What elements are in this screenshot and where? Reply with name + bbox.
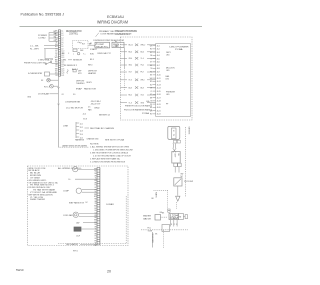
fresh food light switch — [45, 62, 58, 65]
svg-text:15uF: 15uF — [76, 236, 80, 238]
svg-text:RD-5: RD-5 — [129, 95, 133, 97]
svg-text:RB: RB — [94, 199, 96, 201]
svg-text:TN: TN — [150, 101, 152, 103]
svg-text:PK-7: PK-7 — [141, 72, 145, 74]
run capacitor box — [112, 42, 124, 48]
svg-text:RD: RD — [94, 171, 96, 173]
svg-text:J-4: J-4 — [61, 37, 63, 39]
svg-text:THERMO: THERMO — [76, 83, 85, 85]
svg-text:DOOR AJAR: DOOR AJAR — [38, 93, 50, 96]
svg-text:GN-2: GN-2 — [129, 65, 133, 67]
svg-text:WB: WB — [55, 68, 58, 70]
door harness inner wire — [123, 68, 125, 90]
relay coil — [78, 42, 93, 45]
svg-text:J-9: J-9 — [61, 48, 63, 50]
svg-text:T =: T = — [83, 54, 85, 56]
svg-text:J2-1: J2-1 — [80, 123, 83, 125]
J4 pin ladder — [150, 45, 161, 115]
svg-text:YL: YL — [150, 91, 152, 93]
door wire rows — [120, 44, 155, 105]
ice maker side plug — [185, 215, 187, 219]
wire corner to notes — [59, 146, 89, 148]
svg-text:YL: YL — [95, 229, 97, 231]
svg-text:4. DO NOT EXCEED RATED LOAD OF: 4. DO NOT EXCEED RATED LOAD OF OUTLET — [93, 155, 132, 158]
svg-text:YL: YL — [150, 58, 152, 60]
svg-text:TN: TN — [95, 185, 97, 187]
ice maker terminal box — [169, 214, 179, 221]
LED power PCBA box — [156, 44, 191, 117]
svg-text:J-19: J-19 — [61, 71, 64, 73]
svg-text:J4-5: J4-5 — [157, 58, 160, 60]
svg-text:HTR 1: HTR 1 — [73, 251, 78, 253]
svg-text:J-12: J-12 — [61, 55, 64, 57]
svg-text:J4-4: J4-4 — [157, 55, 160, 57]
svg-text:GY-5: GY-5 — [141, 95, 145, 97]
svg-text:WH: WH — [150, 110, 153, 112]
water line dashed wire — [154, 190, 168, 213]
svg-text:J4-22: J4-22 — [157, 114, 161, 116]
svg-text:HEATER: HEATER — [88, 72, 97, 75]
svg-text:GB: GB — [94, 201, 96, 203]
harness dashed wire — [185, 127, 187, 196]
display board connector — [172, 152, 180, 164]
svg-text:OR: OR — [94, 175, 96, 177]
svg-text:5W10: 5W10 — [16, 268, 24, 272]
svg-text:BK: BK — [150, 75, 152, 77]
defrost thermostat label — [76, 80, 92, 84]
AC line wires — [44, 45, 58, 47]
freezer thermostat — [174, 178, 194, 186]
svg-text:SENSOR: SENSOR — [73, 59, 83, 61]
svg-text:ECBM1AU: ECBM1AU — [107, 14, 124, 19]
svg-text:20: 20 — [107, 270, 111, 274]
svg-text:GY: GY — [150, 62, 152, 64]
svg-text:DISP: DISP — [174, 154, 176, 158]
svg-text:J-21: J-21 — [61, 75, 64, 77]
svg-text:J-15: J-15 — [61, 62, 64, 64]
svg-text:3-WAY: 3-WAY — [106, 203, 115, 206]
svg-text:PR: PR — [94, 215, 96, 217]
compressor motor — [73, 167, 97, 172]
svg-text:SEE NOTE 3 PCBA: SEE NOTE 3 PCBA — [105, 139, 125, 142]
svg-text:J2-2: J2-2 — [80, 127, 83, 129]
svg-text:OG: OG — [94, 210, 96, 212]
svg-text:FRESH FOOD DOOR HARN 1: FRESH FOOD DOOR HARN 1 — [125, 105, 152, 108]
svg-text:J3-2 BU MOTOR: J3-2 BU MOTOR — [66, 108, 84, 110]
svg-text:FRESH FOOD LIGHT SW: FRESH FOOD LIGHT SW — [24, 62, 46, 64]
svg-text:J-5: J-5 — [61, 40, 63, 42]
svg-text:GY-8: GY-8 — [83, 118, 87, 120]
svg-text:BU: BU — [150, 52, 152, 54]
condenser fan motor — [73, 212, 97, 217]
svg-text:J4-15: J4-15 — [157, 91, 161, 93]
svg-text:BK: BK — [95, 217, 97, 219]
svg-text:J4-8: J4-8 — [157, 68, 160, 70]
svg-text:L: L — [73, 54, 74, 56]
svg-text:START: START — [90, 48, 97, 51]
svg-text:BV: BV — [95, 208, 97, 210]
svg-text:J3-4 GY: J3-4 GY — [91, 103, 102, 105]
svg-text:VT: VT — [95, 243, 97, 245]
svg-text:OVERLOAD PTC: OVERLOAD PTC — [97, 52, 112, 55]
svg-text:YR: YR — [94, 203, 96, 205]
svg-text:J-18: J-18 — [61, 68, 64, 70]
svg-text:J4-19: J4-19 — [157, 104, 161, 106]
svg-text:PCBA: PCBA — [142, 112, 150, 115]
svg-text:J4-3: J4-3 — [157, 52, 160, 54]
leader line to note — [96, 33, 99, 37]
svg-text:J4-9: J4-9 — [157, 71, 160, 73]
wires to switch — [174, 167, 176, 173]
svg-text:BU: BU — [94, 224, 96, 226]
svg-text:2. DISCONNECT POWER BEFORE SER: 2. DISCONNECT POWER BEFORE SERVICING UNI… — [93, 150, 134, 152]
svg-text:FAN MOTOR: FAN MOTOR — [84, 87, 97, 90]
wire to arrow — [177, 186, 179, 196]
UI plug pair — [174, 140, 177, 143]
svg-text:BR: BR — [94, 182, 96, 184]
svg-text:GY: GY — [94, 187, 96, 189]
svg-text:PK: PK — [150, 104, 152, 106]
svg-text:6. CONNECTORS VIEWED FROM WIRE: 6. CONNECTORS VIEWED FROM WIRE SIDE — [90, 162, 126, 164]
svg-text:BK/WH 12: BK/WH 12 — [99, 114, 110, 116]
svg-text:BI-MTL: BI-MTL — [87, 82, 93, 84]
compressor relay box — [95, 42, 110, 48]
LED labels inside box — [166, 52, 176, 105]
svg-text:WH-3: WH-3 — [141, 80, 145, 82]
ice maker side wire — [183, 216, 185, 218]
svg-text:J4-16: J4-16 — [157, 94, 161, 96]
svg-text:WR: WR — [94, 194, 96, 196]
svg-text:J4-17: J4-17 — [157, 97, 161, 99]
svg-text:WH-12: WH-12 — [141, 45, 146, 47]
svg-text:EVAP FAN MOTOR: EVAP FAN MOTOR — [69, 201, 85, 204]
svg-text:NEUTRAL BK CHASSIS: NEUTRAL BK CHASSIS — [90, 127, 115, 130]
svg-text:WATER: WATER — [143, 214, 152, 217]
svg-text:YL-8: YL-8 — [129, 102, 132, 104]
svg-text:J-7: J-7 — [61, 44, 63, 46]
ground wire — [44, 49, 46, 59]
compressor windings — [76, 188, 97, 193]
svg-text:BK-9: BK-9 — [141, 87, 145, 89]
svg-text:P2: P2 — [172, 134, 174, 136]
condenser fan row — [66, 106, 101, 111]
svg-text:YL: YL — [95, 178, 97, 180]
svg-text:PK: PK — [95, 240, 97, 242]
svg-text:PK: PK — [95, 189, 97, 191]
door labels left column — [115, 30, 138, 48]
svg-text:OR-4: OR-4 — [129, 58, 133, 60]
svg-text:BU-6: BU-6 — [141, 52, 145, 54]
door harness dashed box — [120, 37, 192, 120]
svg-text:BK-12: BK-12 — [129, 45, 133, 47]
svg-text:BU-9: BU-9 — [129, 87, 133, 89]
svg-text:FRZ DOOR HARNESS HARN 2: FRZ DOOR HARNESS HARN 2 — [124, 108, 152, 111]
svg-text:O.L.: O.L. — [68, 179, 72, 181]
connector plug pair — [174, 163, 178, 166]
svg-text:J4-11: J4-11 — [157, 78, 161, 80]
connector J2 bracket — [76, 122, 115, 140]
wire relay to box — [89, 44, 96, 46]
svg-text:TH1: TH1 — [63, 60, 66, 62]
svg-text:GN: GN — [94, 231, 96, 233]
svg-text:LED POWER: LED POWER — [170, 46, 190, 48]
svg-text:NOTES:: NOTES: — [90, 144, 100, 146]
svg-text:TN: TN — [95, 236, 97, 238]
svg-text:RD-6: RD-6 — [129, 52, 133, 54]
svg-text:L1 - BK: L1 - BK — [30, 45, 40, 47]
svg-text:COMPRESSOR START RELAY RUN CAP: COMPRESSOR START RELAY RUN CAP — [93, 39, 125, 42]
svg-text:J4-18: J4-18 — [157, 101, 161, 103]
svg-text:3. SEE TECH SHEET FOR CONTROL: 3. SEE TECH SHEET FOR CONTROL DETAILS — [90, 152, 129, 155]
leader line to relay box — [94, 42, 98, 47]
svg-text:J4-10: J4-10 — [157, 75, 161, 77]
svg-text:CONDENSER FAN: CONDENSER FAN — [65, 101, 81, 104]
dashed wire to ice maker — [176, 202, 178, 209]
svg-text:LIGHTING NOTE 5: LIGHTING NOTE 5 — [115, 34, 130, 36]
svg-text:PCBA: PCBA — [175, 48, 183, 51]
svg-text:LB: LB — [55, 75, 57, 77]
svg-text:WH/BK TRACER: WH/BK TRACER — [30, 198, 46, 201]
svg-text:J2-4: J2-4 — [80, 134, 83, 136]
svg-text:J4-13: J4-13 — [157, 84, 161, 86]
svg-text:SEE DOOR SWITCHES AND: SEE DOOR SWITCHES AND — [115, 30, 138, 33]
svg-text:BU: BU — [150, 84, 152, 86]
svg-text:PK: PK — [150, 71, 152, 73]
control coil symbol — [73, 49, 83, 52]
wire color legend — [29, 167, 83, 201]
svg-text:TN: TN — [150, 68, 152, 70]
svg-text:TO ICE MKR: TO ICE MKR — [151, 234, 153, 244]
ice maker aux box — [179, 214, 184, 220]
dashed drop wire — [163, 230, 165, 248]
svg-text:YL: YL — [55, 42, 57, 44]
svg-text:BK: BK — [150, 107, 152, 109]
svg-text:J-2: J-2 — [61, 33, 63, 35]
svg-text:J2-4: J2-4 — [83, 114, 86, 116]
svg-text:YL-4: YL-4 — [141, 58, 144, 60]
svg-text:WB: WB — [94, 206, 96, 208]
wire arrow tick 2 — [58, 104, 60, 106]
svg-text:COMP: COMP — [63, 191, 70, 193]
svg-text:HARNESS: HARNESS — [75, 139, 85, 142]
run capacitor — [74, 227, 97, 231]
svg-text:GY: GY — [94, 238, 96, 240]
svg-text:1 NEUTRAL LP: 1 NEUTRAL LP — [38, 58, 54, 61]
ice maker inline connector — [168, 209, 170, 212]
svg-text:J4-2: J4-2 — [157, 49, 160, 51]
svg-text:RD: RD — [94, 222, 96, 224]
svg-text:J4-14: J4-14 — [157, 88, 161, 90]
water valve coil — [155, 215, 167, 221]
wire arrow tick 1 — [58, 87, 60, 89]
svg-text:WH-3: WH-3 — [88, 64, 92, 66]
header rule — [20, 26, 203, 28]
svg-text:J-20: J-20 — [61, 73, 64, 75]
svg-text:WR: WR — [94, 245, 96, 247]
svg-text:J2-3: J2-3 — [80, 130, 83, 132]
svg-text:OR: OR — [94, 226, 96, 228]
svg-text:J4-21: J4-21 — [157, 110, 161, 112]
cabinet inner dashed corner — [58, 196, 126, 244]
svg-text:J-3: J-3 — [61, 35, 63, 37]
svg-text:BK-9: BK-9 — [90, 59, 94, 61]
svg-text:WH: WH — [150, 45, 153, 47]
svg-text:J4-20: J4-20 — [157, 107, 161, 109]
power cord wires — [49, 31, 58, 42]
svg-text:CORD: CORD — [38, 38, 46, 40]
svg-text:DEF HEATER: DEF HEATER — [66, 243, 79, 246]
UI connector — [168, 126, 180, 139]
wire cap down — [123, 48, 125, 69]
svg-text:GN: GN — [94, 180, 96, 182]
svg-text:RELAY PTC: RELAY PTC — [96, 45, 109, 48]
freezer light switch — [45, 72, 59, 76]
control dashed outline — [73, 41, 89, 49]
svg-text:WH: WH — [94, 219, 96, 221]
svg-text:WIRING DIAGRAM: WIRING DIAGRAM — [97, 20, 129, 25]
svg-text:VT: VT — [95, 192, 97, 194]
svg-text:J-1: J-1 — [61, 31, 63, 33]
twisted pair wires — [173, 143, 176, 152]
to ice maker wire — [151, 232, 158, 248]
freezer light lamp — [44, 84, 58, 88]
notes text block — [90, 144, 134, 164]
svg-text:DOOR SW: DOOR SW — [184, 181, 193, 183]
ice maker dashed bus — [141, 229, 188, 231]
svg-text:1. ALL WIRING SHOWN WITH DOOR: 1. ALL WIRING SHOWN WITH DOOR OPEN — [90, 146, 130, 149]
fresh food light lamp — [41, 78, 58, 82]
svg-text:Publication No. 5995T368 J: Publication No. 5995T368 J — [21, 12, 65, 16]
svg-text:DC-: DC- — [73, 94, 76, 96]
svg-text:GY-7: GY-7 — [129, 72, 133, 74]
svg-text:J4-12: J4-12 — [157, 81, 161, 83]
thermistor row — [63, 59, 94, 61]
ice maker bottom wires — [171, 220, 178, 227]
svg-text:N - WH: N - WH — [30, 48, 40, 50]
defrost terminals row — [62, 52, 94, 55]
fill tube box — [162, 225, 170, 232]
svg-text:TN-2: TN-2 — [141, 65, 144, 67]
svg-text:M: M — [179, 217, 181, 219]
connector J2 ladder — [94, 168, 100, 247]
svg-text:WH: WH — [150, 78, 153, 80]
svg-text:GB: GB — [55, 64, 57, 66]
svg-text:A THERMOSTAT: A THERMOSTAT — [28, 72, 43, 75]
svg-text:CONTROL: CONTROL — [69, 34, 79, 36]
svg-text:VT: VT — [55, 55, 57, 57]
svg-text:CHASSIS GND: CHASSIS GND — [87, 137, 100, 140]
svg-text:GY: GY — [150, 94, 152, 96]
svg-text:J-6: J-6 — [61, 42, 63, 44]
svg-text:COND FAN: COND FAN — [63, 214, 73, 217]
svg-text:OR-8: OR-8 — [141, 102, 145, 104]
svg-text:DEF: DEF — [80, 50, 83, 52]
svg-text:J-8: J-8 — [61, 46, 63, 48]
svg-text:BU: BU — [94, 173, 96, 175]
svg-text:WH: WH — [94, 168, 96, 170]
arrow disconnect symbol — [176, 196, 180, 201]
connector J1 ladder — [55, 30, 65, 77]
svg-text:FF SENSOR 2: FF SENSOR 2 — [64, 65, 77, 67]
cabinet dashed box — [28, 166, 129, 246]
svg-text:VT-3: VT-3 — [129, 80, 132, 82]
wire from J1 down to cabinet — [58, 76, 60, 147]
svg-text:BR: BR — [94, 233, 96, 235]
svg-text:VALVE: VALVE — [143, 218, 152, 221]
svg-text:5. REPLACE WIRE WITH SAME GA.: 5. REPLACE WIRE WITH SAME GA. — [90, 158, 120, 161]
svg-text:J4-6: J4-6 — [157, 62, 160, 64]
svg-text:REFRIGERATOR: REFRIGERATOR — [66, 30, 82, 33]
svg-text:J4-1: J4-1 — [157, 45, 160, 47]
defrost heater squiggle — [67, 69, 97, 75]
svg-text:FILL: FILL — [148, 227, 151, 229]
svg-text:J4-7: J4-7 — [157, 65, 160, 67]
svg-text:LB: LB — [95, 212, 97, 214]
